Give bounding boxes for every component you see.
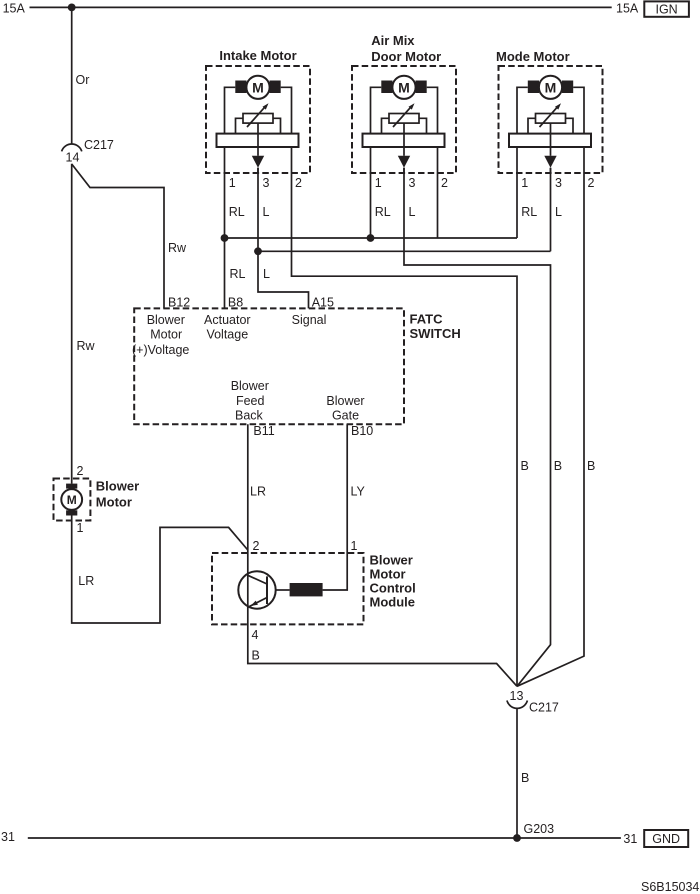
svg-text:L: L [263, 267, 270, 281]
svg-text:B: B [252, 649, 260, 663]
svg-text:Feed: Feed [236, 394, 265, 408]
svg-text:IGN: IGN [655, 2, 677, 16]
svg-text:Blower: Blower [147, 313, 185, 327]
svg-text:Or: Or [76, 73, 90, 87]
svg-text:Air Mix: Air Mix [371, 33, 415, 48]
svg-text:Motor: Motor [96, 495, 132, 510]
svg-text:4: 4 [252, 628, 259, 642]
svg-text:M: M [67, 493, 77, 507]
svg-text:(+)Voltage: (+)Voltage [132, 343, 189, 357]
svg-text:Rw: Rw [77, 339, 96, 353]
svg-text:31: 31 [623, 832, 637, 846]
svg-text:Door Motor: Door Motor [371, 49, 441, 64]
svg-text:13: 13 [510, 689, 524, 703]
svg-text:Blower: Blower [231, 379, 269, 393]
svg-text:2: 2 [253, 539, 260, 553]
svg-text:Gate: Gate [332, 409, 359, 423]
svg-text:RL: RL [230, 267, 246, 281]
svg-text:FATC: FATC [410, 312, 444, 327]
svg-text:Voltage: Voltage [206, 328, 248, 342]
svg-text:31: 31 [1, 830, 15, 844]
svg-text:Blower: Blower [326, 394, 364, 408]
svg-text:1: 1 [77, 521, 84, 535]
svg-text:1: 1 [351, 539, 358, 553]
svg-text:B: B [554, 459, 562, 473]
svg-text:LY: LY [351, 485, 366, 499]
svg-text:Blower: Blower [96, 479, 139, 494]
svg-text:GND: GND [652, 832, 680, 846]
svg-text:B12: B12 [168, 296, 190, 310]
svg-text:B8: B8 [228, 296, 243, 310]
svg-text:Control: Control [370, 581, 416, 596]
svg-text:G203: G203 [524, 822, 555, 836]
svg-text:SWITCH: SWITCH [410, 326, 461, 341]
svg-text:Actuator: Actuator [204, 313, 251, 327]
svg-text:B: B [521, 771, 529, 785]
svg-text:15A: 15A [3, 1, 26, 15]
svg-text:15A: 15A [616, 1, 639, 15]
svg-text:Mode Motor: Mode Motor [496, 49, 570, 64]
svg-text:Blower: Blower [370, 553, 413, 568]
svg-text:Module: Module [370, 595, 416, 610]
svg-text:Intake Motor: Intake Motor [219, 48, 296, 63]
svg-text:C217: C217 [529, 701, 559, 715]
svg-text:Back: Back [235, 409, 264, 423]
svg-text:Motor: Motor [150, 328, 182, 342]
svg-text:C217: C217 [84, 138, 114, 152]
svg-text:LR: LR [250, 485, 266, 499]
svg-text:14: 14 [66, 151, 80, 165]
svg-text:Signal: Signal [292, 313, 327, 327]
svg-text:A15: A15 [312, 296, 334, 310]
svg-text:S6B15034: S6B15034 [641, 880, 699, 894]
svg-text:Rw: Rw [168, 241, 187, 255]
svg-text:B: B [587, 459, 595, 473]
svg-text:B10: B10 [351, 424, 373, 438]
svg-text:Motor: Motor [370, 567, 406, 582]
svg-text:LR: LR [78, 574, 94, 588]
svg-text:B11: B11 [253, 424, 274, 438]
svg-text:2: 2 [77, 464, 84, 478]
svg-text:B: B [521, 459, 529, 473]
